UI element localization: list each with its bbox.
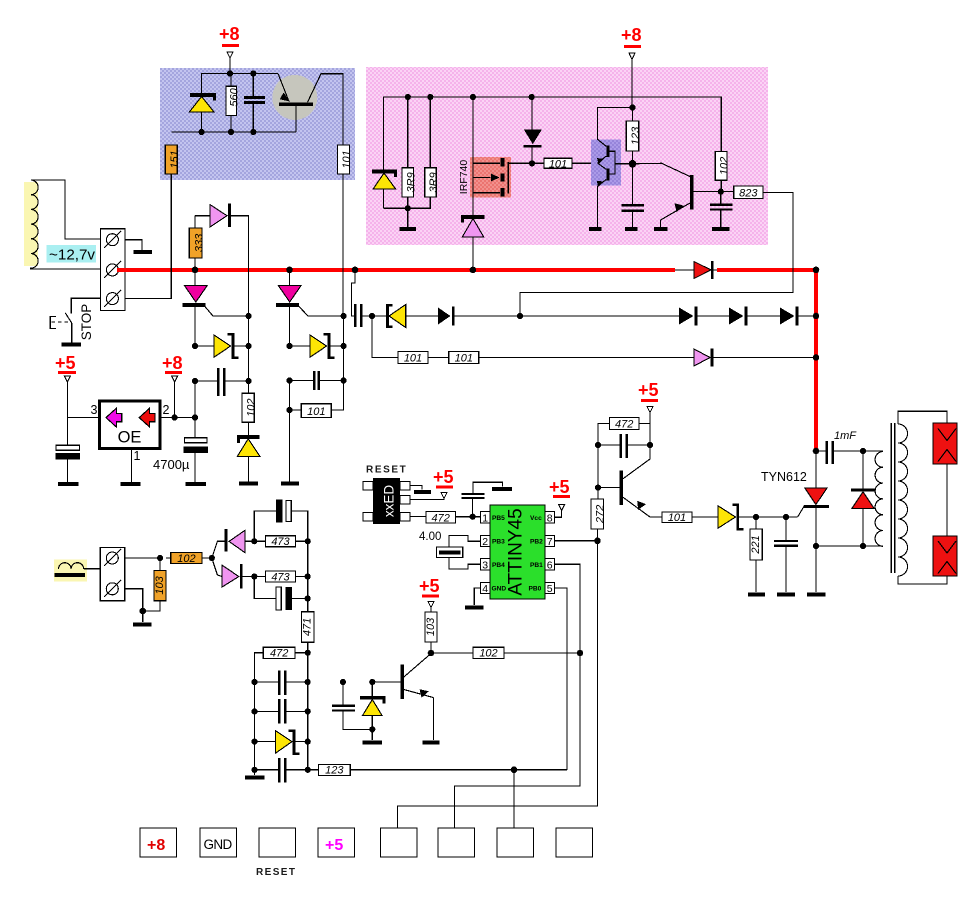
wire X2 terminal1 [125,557,160,559]
ground (pink module left) [399,208,416,229]
+5 supply (left) [55,353,76,445]
connector pad GND [200,828,237,857]
ground (terminal 1) [133,250,152,254]
wire ATTINY pin7 run [398,541,598,828]
resistor 101 (Q3 emitter) [650,512,718,524]
capacitor electrolytic (osc top) [254,499,307,541]
svg-text:3R9: 3R9 [428,172,440,192]
svg-text:3: 3 [91,403,98,417]
svg-text:+5: +5 [55,353,76,373]
thyristor SCR1 [182,270,248,346]
ground (Q2 base cap) [712,227,730,231]
svg-text:3: 3 [482,560,488,572]
zener diode (violet, below IRF740) [461,217,485,270]
ground (STOP) [62,343,81,347]
resistor 472 (reset) [410,512,481,525]
capacitor row B left [195,368,249,396]
resistor 123 (osc out) [308,764,567,776]
capacitor electrolytic (+5 rail) [56,445,80,482]
resistor 221 [750,517,762,592]
svg-text:3R9: 3R9 [405,172,417,192]
svg-text:ATTINY45: ATTINY45 [506,508,527,595]
svg-text:RESET: RESET [256,867,296,878]
diode (yellow, left-pointing, chain) [372,304,438,328]
connector pad P1 [381,828,418,857]
ground (ATTINY) [465,605,484,609]
svg-text:~12,7v: ~12,7v [49,247,95,264]
terminal block X1 [100,229,125,311]
svg-text:+8: +8 [147,837,165,854]
svg-text:823: 823 [739,188,758,200]
svg-text:560: 560 [228,87,240,106]
ground (x=289.5) [281,482,299,486]
svg-text:101: 101 [404,353,422,365]
wire ATTINY pin7 to 272 [555,540,598,542]
diode D (red, on +12V line) [694,261,714,279]
svg-text:4: 4 [482,583,488,595]
wire top rail (pink module) [384,97,722,170]
capacitor (mid driver) [598,434,650,458]
svg-text:STOP: STOP [79,304,94,341]
svg-text:5: 5 [547,583,553,595]
wire terminal1 to ground [125,240,142,251]
svg-text:IRF740: IRF740 [458,160,470,195]
resistor 823 [721,186,763,200]
svg-text:2: 2 [163,403,170,417]
svg-text:102: 102 [245,399,257,417]
resistor 103 (sense) [143,558,166,611]
wire secondary to lamp blocks [898,411,947,424]
svg-text:1: 1 [134,449,141,463]
resistor 101 #B (row 357) [428,352,694,365]
svg-text:RESET: RESET [366,465,407,476]
zener diode (yellow, pink module left) [372,172,397,209]
pink driver module background [366,67,768,245]
svg-text:PB5: PB5 [492,515,505,522]
diode chain black #1 [438,307,679,326]
control module background (blue) [160,68,355,180]
svg-text:PB1: PB1 [530,562,543,569]
diode chain black #3 [729,307,780,326]
svg-text:+5: +5 [325,837,343,854]
resistor 102 (osc collector) [431,647,580,659]
IC xxED (reset chip) [363,478,410,524]
ground (xxED) [414,490,431,494]
zener diode (yellow, x=248 column) [237,422,260,482]
diode (red, flyback) [851,451,875,546]
svg-text:+5: +5 [638,380,659,400]
svg-text:PB0: PB0 [529,586,542,593]
zener diode (yellow, blue module) [190,95,217,132]
svg-text:471: 471 [302,618,314,636]
capacitor (below 123) [622,164,645,227]
transistor Q2 (pink module right) [633,163,721,227]
IC ATTINY45 [481,505,555,599]
zener diode (yellow, Q4 base) [360,682,386,740]
+8 supply (pink module) [621,25,642,108]
switch STOP [50,298,100,343]
transformer T1 primary [863,451,883,546]
svg-text:4.00: 4.00 [419,531,441,543]
junction dots (bottom section) [140,538,584,773]
connector pad RESET [256,828,296,878]
svg-text:4700µ: 4700µ [153,457,190,472]
svg-text:OE: OE [118,429,142,447]
diode chain black #2 [679,307,729,326]
crystal 4.00 [419,531,481,569]
ground (zener) [363,740,383,744]
diode (violet, row 357) [694,349,816,367]
red +12V wire (left run) [117,268,675,272]
svg-text:102: 102 [479,648,497,660]
resistor 101 #A (row 357) [372,316,428,365]
connector pad P4 [556,828,593,857]
svg-text:101: 101 [549,158,567,170]
ground (x=248) [239,482,258,486]
resistor 560 [226,74,240,133]
connector pad +8 [140,828,177,857]
capacitor (Q4 base filter) [332,682,373,729]
svg-text:472: 472 [270,648,288,660]
+5 supply (xxED) [410,467,454,500]
svg-text:GND: GND [204,837,233,852]
svg-text:TYN612: TYN612 [761,470,807,484]
svg-text:PB3: PB3 [492,539,505,546]
diode (black, pink module) [523,97,541,163]
resistor 472 (osc) [255,647,308,682]
lamp block 2 (red) [933,536,957,576]
diode (yellow, TYN gate) [718,504,798,531]
wire sense node to diode pair [212,541,225,576]
resistor 102 (pink module) [715,152,730,192]
diode (yellow, osc row3) [255,711,308,755]
wire L1 top to terminal 1 [31,180,101,239]
svg-text:PB4: PB4 [492,562,505,569]
svg-text:+5: +5 [549,477,570,497]
capacitor electrolytic (osc bottom) [254,577,307,611]
resistor 333 [189,216,205,270]
resistor 103 (osc driver) [425,612,437,653]
wire ATTINY pin5 [555,588,568,770]
svg-text:472: 472 [615,419,633,431]
svg-text:2: 2 [482,536,488,548]
wire to red diode [675,269,719,271]
ground (below 123 cap) [625,227,638,231]
capacitor (reset) [462,482,503,517]
ground (osc column) [245,770,265,778]
resistor 102 (sense) [166,553,212,565]
resistor 473 #2 [254,571,307,583]
svg-text:272: 272 [595,505,607,524]
transistor Q1 (PNP, blue module) [272,74,343,146]
diode (yellow) row A mid [290,333,344,359]
+8 supply (OE pin2) [160,353,195,418]
svg-text:473: 473 [271,536,290,548]
ground (sense) [133,623,151,627]
+5 supply (mid driver) [638,380,659,445]
ground (reset cap) [492,487,512,491]
thyristor SCR2 [276,270,344,346]
junction dots (right section) [470,442,867,549]
svg-text:7: 7 [547,536,553,548]
svg-text:101: 101 [455,353,473,365]
resistor 123 [626,108,642,164]
red +12V wire (right run down to TYN612) [717,270,816,451]
label ~12,7v [47,245,96,263]
capacitor row B mid [290,371,344,390]
transistor Q3 (mid driver PNP) [598,445,650,517]
ground (OE pin1) [120,482,140,486]
svg-text:103: 103 [154,575,166,594]
transformer T1 secondary [898,424,908,576]
svg-text:+8: +8 [621,25,642,45]
ground (TYN gate cap) [777,593,795,597]
svg-text:+8: +8 [219,24,240,44]
transformer T1 core [891,423,894,573]
resistor 471 [301,541,314,682]
thyristor TYN612 [761,451,829,592]
ground (TYN cathode) [807,593,826,597]
capacitor 4700u electrolytic [153,438,208,482]
diode (violet, left-pointing, osc) [225,529,255,552]
wire ATTINY pin6 [455,564,581,828]
diode chain black #4 [780,307,816,326]
svg-text:101: 101 [307,406,325,418]
inductor L1 mains winding [24,180,38,269]
junction dots (blue module) [199,70,257,135]
resistor 473 #1 [254,536,307,548]
wire terminal3 to R151 column [125,174,171,299]
svg-text:PB2: PB2 [530,539,543,546]
lamp block 1 (red) [933,423,957,464]
wire PB0 net to connector [513,770,515,828]
svg-text:103: 103 [425,617,437,636]
ground (Q4 emitter) [422,740,439,744]
svg-text:102: 102 [177,553,195,565]
ground (221) [748,593,765,597]
resistor 151 [165,145,181,174]
resistor 272 [591,499,607,541]
resistor 3R9 #1 [402,97,417,208]
svg-text:473: 473 [271,571,290,583]
svg-text:8: 8 [547,513,553,525]
resistor 101 (SCR gate row) [290,316,344,418]
capacitor (snubber at red wire) [352,270,373,327]
svg-text:102: 102 [719,157,731,175]
+5 supply (ATTINY Vcc) [549,477,570,517]
svg-text:333: 333 [193,233,205,252]
svg-text:Vcc: Vcc [530,515,542,522]
svg-text:6: 6 [547,560,553,572]
ground (Q2 emitter) [654,227,668,231]
svg-text:GND: GND [492,586,507,593]
inductor L2 (lamp sense) [54,560,100,582]
wire L1 bottom to terminal 2 [31,268,101,270]
ground (4700u) [186,482,206,486]
svg-text:472: 472 [432,512,450,524]
connector pad P3 [497,828,534,857]
wire +8 rail (blue module) [202,74,278,95]
resistor 472 (mid driver) [598,418,650,446]
wire x=289.5 column to ground [289,381,291,483]
connector pad P2 [438,828,475,857]
svg-text:101: 101 [668,512,686,524]
capacitor (osc row4) [255,742,308,783]
svg-text:123: 123 [630,126,642,145]
svg-text:1: 1 [482,513,488,525]
diode (violet, above 333) [195,204,249,316]
+5 supply (osc driver) [419,576,440,612]
wire bottom rail (pink module left) [384,197,431,208]
terminal block X2 [100,548,125,601]
MOSFET IRF740 [458,97,532,215]
wire 823 feedback to diode chain [520,192,793,316]
svg-text:+5: +5 [419,576,440,596]
resistor 102 (x=248 column) [242,316,257,422]
wire X2 terminal2 to ground [125,589,143,622]
resistor 3R9 #2 [425,97,440,197]
capacitor 1mF [816,430,863,464]
wire ATTINY GND pin4 [474,588,480,605]
diode (yellow) row A left [195,333,249,359]
resistor 101 (pink module) [532,158,598,170]
regulator OE [67,401,169,482]
svg-text:+8: +8 [162,353,183,373]
svg-text:123: 123 [325,765,344,777]
svg-text:xxED: xxED [382,485,397,518]
junction dots (pink module) [405,94,724,211]
capacitor (blue module) [244,74,265,133]
capacitor (osc row2) [255,682,308,724]
svg-text:101: 101 [341,150,353,168]
dual transistor (purple block) [591,108,633,228]
ground (+5 cap) [58,482,78,486]
+8 supply (blue module) [219,24,240,74]
connector pad +5 [318,828,355,857]
wire bottom rail (blue module) [171,131,296,133]
junction dots (left section) [172,267,820,421]
svg-text:221: 221 [750,535,762,554]
capacitor (Q2 base) [710,192,733,227]
svg-text:+5: +5 [433,467,454,487]
capacitor (TYN gate) [774,517,798,592]
wire TYN row to transformer [816,545,883,547]
capacitor (osc row1) [255,671,308,696]
svg-text:151: 151 [169,150,181,168]
resistor 101 (blue module) [338,145,353,316]
wire xxED pin top-right to ground [410,486,422,490]
svg-text:1mF: 1mF [834,430,857,442]
wire x=195 column to OE node [194,381,196,438]
transistor Q4 (osc NPN) [372,654,434,741]
ground (dual transistor) [589,227,602,231]
diode (violet, right-pointing, osc) [222,564,255,589]
